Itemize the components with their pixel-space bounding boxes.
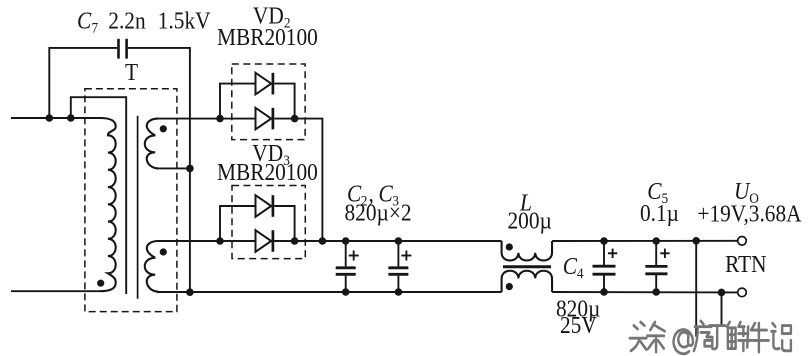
diode VD3 lower <box>256 230 273 252</box>
junction dot VD3 anode <box>216 237 224 245</box>
wire sense stub from top rail <box>695 241 697 337</box>
capacitor C2 plus <box>349 251 359 261</box>
diode VD3 upper <box>256 195 273 217</box>
svg-text:25V: 25V <box>560 312 597 338</box>
wire center tap stub <box>157 167 190 169</box>
polarity dot L bottom <box>506 283 513 290</box>
svg-text:+19V,3.68A: +19V,3.68A <box>697 200 802 226</box>
wire secondary top stub to VD2 <box>157 118 256 120</box>
junction dot C3 top <box>395 237 403 245</box>
capacitor C7 plates <box>119 39 127 59</box>
junction dot VD2 cathode <box>291 115 299 123</box>
terminal RTN <box>738 288 747 297</box>
svg-text:MBR20100: MBR20100 <box>217 24 318 50</box>
svg-text:2.2n: 2.2n <box>108 7 146 33</box>
svg-text:RTN: RTN <box>725 251 766 277</box>
inductor L core bar <box>503 265 551 268</box>
wire VD3 left branch <box>220 206 256 241</box>
terminal UO <box>738 237 747 246</box>
junction dot C4 bottom <box>600 288 608 296</box>
label C5 <box>647 178 668 207</box>
wire top input lead <box>11 117 100 119</box>
junction dot sense bottom <box>718 289 726 297</box>
junction dot sense top <box>692 237 700 245</box>
transformer core line <box>137 116 139 299</box>
junction dot C4 top <box>600 237 608 245</box>
capacitor C5 plates <box>645 266 667 273</box>
polarity dot primary <box>97 280 104 287</box>
svg-text:1.5kV: 1.5kV <box>158 7 211 33</box>
inductor L bottom winding <box>502 271 552 292</box>
capacitor C7 right wire <box>128 48 190 293</box>
diode VD2 lower <box>256 108 273 130</box>
junction dot VD3 cathode <box>291 237 299 245</box>
label VD2 <box>253 2 291 31</box>
svg-text:MBR20100: MBR20100 <box>217 159 318 185</box>
wire top rail to output terminal <box>552 240 738 242</box>
label C4 <box>563 253 584 282</box>
svg-text:200µ: 200µ <box>508 207 552 233</box>
capacitor C3 plates <box>388 268 408 275</box>
svg-text:820µ×2: 820µ×2 <box>345 199 412 225</box>
transformer secondary winding top <box>145 119 158 169</box>
polarity dot secondary bottom <box>160 248 167 255</box>
polarity dot L top <box>506 243 513 250</box>
svg-text:C: C <box>77 7 92 33</box>
junction dot C3 bottom <box>395 288 403 296</box>
wire VD2 left branch <box>220 84 256 119</box>
watermark outlined text <box>630 321 791 354</box>
polarity dot secondary top <box>160 125 167 132</box>
junction dot C2 top <box>342 237 350 245</box>
VD2 dashed box <box>232 64 305 140</box>
svg-text:C: C <box>563 253 578 279</box>
junction dot C5 bottom <box>652 288 660 296</box>
diode VD2 upper <box>256 73 273 95</box>
junction dot center tap <box>186 165 194 173</box>
VD3 dashed box <box>232 186 305 259</box>
wire over-route from input to screen <box>71 97 126 294</box>
capacitor C5 leads <box>655 241 657 267</box>
wire bottom rail <box>157 291 502 293</box>
wire output rail y241 <box>157 240 256 242</box>
capacitor C2 leads <box>345 241 347 266</box>
transformer primary winding <box>100 118 116 291</box>
capacitor C3 plus <box>401 251 411 261</box>
junction dot input 1 <box>46 114 54 122</box>
junction dot C5 top <box>652 237 660 245</box>
junction dot VD2 rail <box>319 237 327 245</box>
capacitor C3 leads <box>397 241 399 266</box>
wire sense stub from bottom rail <box>721 292 723 326</box>
junction dot center tap bottom <box>186 288 194 296</box>
svg-text:T: T <box>125 59 138 85</box>
capacitor C4 plates <box>593 266 616 274</box>
transformer T dashed box <box>85 89 177 312</box>
wire VD2 output to rail <box>295 119 323 241</box>
wire VD3 right branch <box>274 206 294 241</box>
transformer secondary winding bottom <box>145 241 158 292</box>
label VD3 <box>252 140 290 169</box>
capacitor C7 left wire <box>49 48 117 118</box>
junction dot VD2 anode <box>216 115 224 123</box>
capacitor C5 plus <box>660 249 669 258</box>
wire VD2 right branch <box>274 84 294 119</box>
capacitor C4 plus <box>608 249 617 258</box>
svg-text:4: 4 <box>577 265 584 282</box>
svg-text:0.1µ: 0.1µ <box>640 200 679 226</box>
capacitor C2 plates <box>336 268 356 275</box>
label UO <box>734 178 759 207</box>
inductor L top winding <box>502 241 552 260</box>
junction dot input 2 <box>67 114 75 122</box>
wire bottom input lead <box>11 290 100 292</box>
label C2 C3 <box>347 180 399 209</box>
junction dot C2 bottom <box>342 288 350 296</box>
label C7 value <box>77 7 211 36</box>
capacitor C4 leads <box>603 241 605 267</box>
svg-text:7: 7 <box>92 20 99 37</box>
